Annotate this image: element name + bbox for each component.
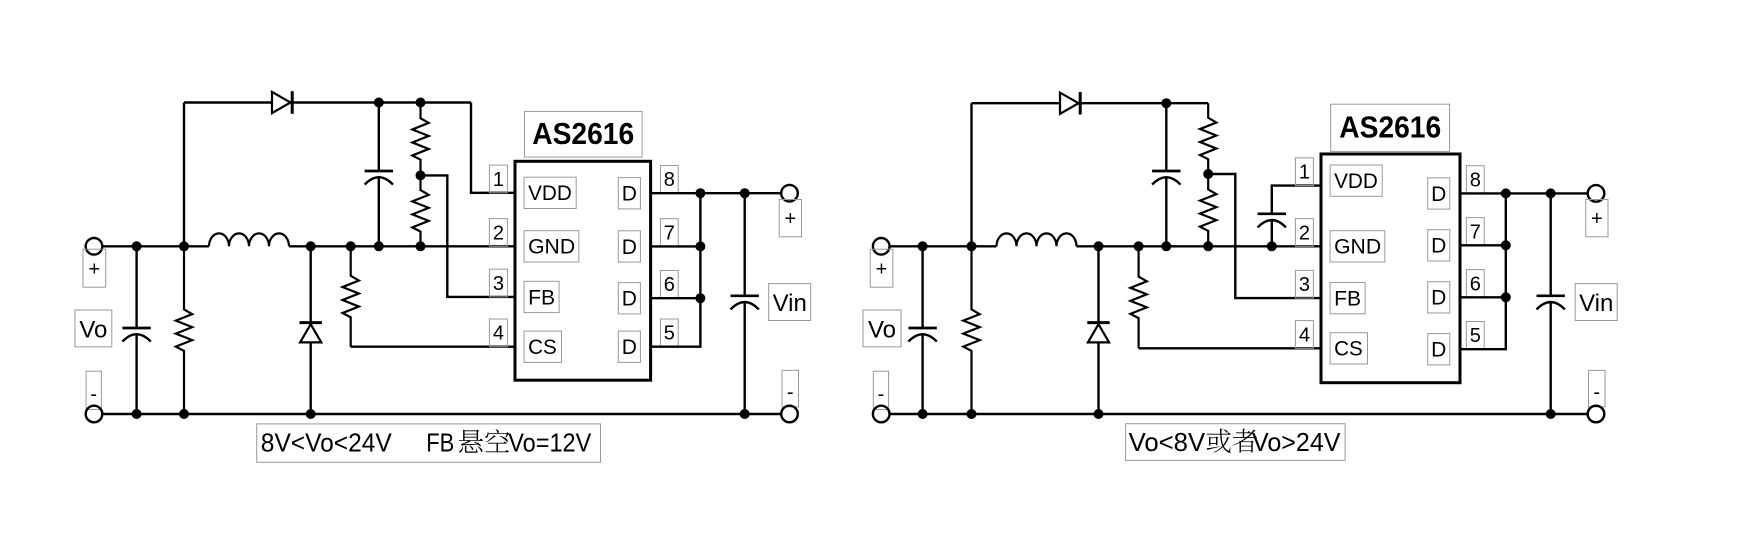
pin number 1 left [489, 165, 507, 193]
terminal Vin+ left [781, 185, 798, 202]
node output-cap bottom left [132, 409, 142, 419]
wire FB tap to pin 3 right [1208, 174, 1321, 298]
svg-text:+: + [876, 259, 888, 281]
svg-text:-: - [878, 383, 885, 405]
svg-text:8: 8 [664, 169, 675, 191]
pin number 6 left [660, 271, 678, 299]
svg-text:D: D [622, 336, 637, 359]
diode freewheel left [300, 246, 322, 414]
resistor CS sense left [343, 246, 515, 346]
wire top boost rail left [184, 101, 471, 103]
wire pin 7 right [1460, 244, 1506, 246]
svg-text:FB: FB [528, 286, 555, 309]
label + box right [870, 249, 893, 287]
svg-text:FB: FB [426, 428, 454, 458]
capacitor boost left [365, 103, 393, 247]
wire bottom ground rail left [102, 413, 781, 415]
svg-text:-: - [1593, 381, 1600, 403]
diode boost left [272, 91, 292, 114]
svg-text:D: D [622, 236, 637, 259]
wire pin 6 right [1460, 296, 1506, 298]
node CS-res top right [1134, 241, 1144, 251]
svg-text:+: + [784, 208, 796, 230]
pin label D (pin 7) right [1428, 230, 1450, 261]
wire pin 6 left [651, 297, 701, 299]
svg-text:Vin: Vin [1579, 290, 1613, 317]
node FB divider bottom left [416, 241, 426, 251]
wire pin 8 to Vin+ left [651, 192, 782, 194]
svg-text:VDD: VDD [528, 182, 572, 205]
node bleeder bottom right [967, 409, 977, 419]
svg-text:Vo>24V: Vo>24V [1252, 427, 1341, 457]
node input-cap bottom left [740, 409, 750, 419]
wire main output rail right [890, 245, 1322, 247]
svg-text:+: + [1591, 208, 1603, 230]
wire pin 8 to Vin+ right [1460, 192, 1588, 194]
svg-text:GND: GND [1334, 236, 1381, 259]
label - box right [873, 371, 888, 409]
label Vo box left [75, 310, 112, 347]
pin label CS left [524, 331, 561, 362]
svg-text:-: - [787, 381, 794, 403]
terminal Vo+ left [86, 238, 103, 255]
wire top boost rail right [972, 102, 1209, 104]
wire FB tap to pin 3 left [421, 175, 516, 297]
capacitor output filter left [122, 246, 150, 414]
svg-text:GND: GND [528, 236, 575, 259]
label + box left [83, 249, 106, 287]
svg-text:5: 5 [664, 323, 675, 345]
svg-text:-: - [90, 383, 97, 405]
node freewheel top right [1094, 241, 1104, 251]
label AS2616 right [1331, 104, 1450, 151]
op-amp U1 AS2616 body left [515, 161, 651, 380]
capacitor boost right [1152, 103, 1180, 246]
pin number 8 left [660, 166, 678, 194]
diode boost right [1060, 92, 1080, 115]
caption box right circuit [1126, 424, 1346, 461]
svg-text:CS: CS [528, 336, 557, 359]
wire pin 7 left [651, 245, 701, 247]
terminal Vin+ right [1588, 185, 1605, 202]
wire VDD pin 1 from top rail left [471, 103, 515, 193]
pin number 4 left [489, 319, 507, 347]
svg-text:8V<Vo<24V: 8V<Vo<24V [261, 428, 393, 458]
pin number 1 right [1295, 158, 1313, 186]
svg-text:2: 2 [1299, 222, 1310, 244]
svg-text:Vo: Vo [79, 317, 107, 344]
wire left boost vertical right [970, 103, 972, 246]
svg-text:D: D [1431, 287, 1446, 310]
svg-text:D: D [622, 183, 637, 206]
node bleeder top left [179, 241, 189, 251]
label - box Vin left [782, 370, 799, 407]
pin label VDD left [524, 177, 576, 208]
svg-text:VDD: VDD [1334, 170, 1378, 193]
pin number 6 right [1466, 270, 1484, 298]
pin number 5 right [1466, 322, 1484, 350]
svg-text:D: D [1431, 183, 1446, 206]
pin label D (pin 5) left [618, 331, 640, 362]
pin number 8 right [1466, 166, 1484, 194]
node FB divider mid right [1203, 169, 1213, 179]
node VDD-cap bottom right [1267, 241, 1277, 251]
node freewheel bottom right [1094, 409, 1104, 419]
pin label CS right [1330, 333, 1367, 364]
svg-text:Vo=12V: Vo=12V [508, 428, 592, 458]
node CS-res top left [346, 241, 356, 251]
capacitor input filter right [1537, 193, 1565, 414]
svg-text:8: 8 [1470, 169, 1481, 191]
node bus pin 6 right [1501, 292, 1511, 302]
label + box Vin left [779, 200, 801, 237]
terminal Vin- left [781, 406, 798, 423]
svg-text:Vin: Vin [773, 290, 807, 317]
node boost-cap bottom left [374, 241, 384, 251]
node FB divider top left [416, 98, 426, 108]
node bleeder bottom left [179, 409, 189, 419]
resistor FB lower left [412, 175, 428, 246]
pin label D (pin 6) right [1428, 282, 1450, 313]
pin label D (pin 5) right [1428, 334, 1450, 365]
capacitor output filter right [908, 246, 936, 414]
pin label FB right [1330, 283, 1365, 314]
svg-text:AS2616: AS2616 [1339, 110, 1441, 145]
pin number 7 left [660, 219, 678, 247]
label Vin box left [769, 284, 811, 321]
label Vin box right [1575, 284, 1617, 321]
inductor L left [209, 233, 289, 246]
node freewheel top left [306, 241, 316, 251]
op-amp U1 AS2616 body right [1321, 154, 1460, 383]
svg-text:3: 3 [493, 273, 504, 295]
pin label GND right [1330, 231, 1385, 262]
pin number 2 left [489, 219, 507, 247]
pin label D (pin 6) left [618, 283, 640, 314]
node FB divider mid left [416, 170, 426, 180]
inductor L right [997, 233, 1077, 246]
svg-text:5: 5 [1470, 325, 1481, 347]
resistor CS sense right [1130, 246, 1321, 348]
pin number 5 left [660, 319, 678, 347]
svg-text:D: D [622, 288, 637, 311]
node bus pin 8 right [1501, 188, 1511, 198]
caption box left circuit [257, 424, 601, 462]
pin label FB left [524, 281, 559, 312]
svg-text:4: 4 [1299, 324, 1310, 346]
pin label GND left [524, 231, 579, 262]
resistor FB upper left [412, 103, 428, 176]
resistor FB lower right [1200, 174, 1216, 246]
resistor bleeder left [176, 246, 192, 414]
svg-text:7: 7 [1470, 221, 1481, 243]
svg-text:1: 1 [493, 169, 504, 191]
node bus pin 7 right [1501, 240, 1511, 250]
label - box left [86, 371, 101, 409]
svg-text:CS: CS [1334, 338, 1363, 361]
node output-cap top left [132, 241, 142, 251]
node boost-cap bottom right [1161, 241, 1171, 251]
node input-cap top right [1546, 188, 1556, 198]
wire left boost vertical left [183, 103, 185, 247]
wire pin 5 and D bus right [1460, 193, 1506, 349]
wire VDD pin 1 to cap right [1272, 186, 1321, 214]
wire main output rail left [102, 245, 515, 247]
label - box Vin right [1589, 370, 1606, 407]
svg-text:D: D [1431, 235, 1446, 258]
svg-text:4: 4 [493, 323, 504, 345]
svg-text:7: 7 [664, 222, 675, 244]
pin label VDD right [1330, 165, 1382, 196]
terminal Vin- right [1588, 406, 1605, 423]
svg-text:Vo: Vo [868, 317, 896, 344]
svg-text:FB: FB [1334, 288, 1361, 311]
svg-text:6: 6 [664, 274, 675, 296]
node boost-cap top left [374, 98, 384, 108]
svg-text:1: 1 [1299, 162, 1310, 184]
pin number 3 left [489, 269, 507, 297]
node boost-cap top right [1161, 98, 1171, 108]
pin label D (pin 7) left [618, 231, 640, 262]
label + box Vin right [1586, 200, 1608, 237]
node FB divider bottom right [1203, 241, 1213, 251]
node input-cap bottom right [1546, 409, 1556, 419]
node bus pin 7 left [695, 241, 705, 251]
svg-text:Vo<8V: Vo<8V [1129, 427, 1206, 457]
node output-cap bottom right [918, 409, 928, 419]
pin number 7 right [1466, 218, 1484, 246]
pin label D (pin 8) right [1428, 178, 1450, 209]
diode freewheel right [1087, 246, 1109, 414]
capacitor input filter left [731, 193, 759, 414]
node freewheel bottom left [306, 409, 316, 419]
wire pin 5 and D bus left [651, 193, 701, 347]
svg-text:2: 2 [493, 222, 504, 244]
pin number 4 right [1295, 321, 1313, 349]
node output-cap top right [918, 241, 928, 251]
resistor bleeder right [963, 246, 979, 414]
capacitor VDD decouple right [1258, 214, 1286, 247]
label Vo box right [863, 310, 901, 347]
terminal Vo+ right [873, 238, 890, 255]
svg-text:AS2616: AS2616 [532, 116, 634, 151]
svg-text:D: D [1431, 339, 1446, 362]
resistor FB upper right [1200, 103, 1216, 174]
wire bottom ground rail right [890, 413, 1588, 415]
pin label D (pin 8) left [618, 178, 640, 209]
terminal Vo- left [86, 406, 103, 423]
pin number 3 right [1295, 270, 1313, 298]
pin number 2 right [1295, 219, 1313, 247]
node bus pin 6 left [695, 293, 705, 303]
svg-text:+: + [88, 259, 100, 281]
svg-text:6: 6 [1470, 273, 1481, 295]
terminal Vo- right [873, 406, 890, 423]
label AS2616 left [524, 111, 642, 157]
svg-text:3: 3 [1299, 274, 1310, 296]
node bleeder top right [967, 241, 977, 251]
node input-cap top left [740, 188, 750, 198]
node bus pin 8 left [695, 188, 705, 198]
